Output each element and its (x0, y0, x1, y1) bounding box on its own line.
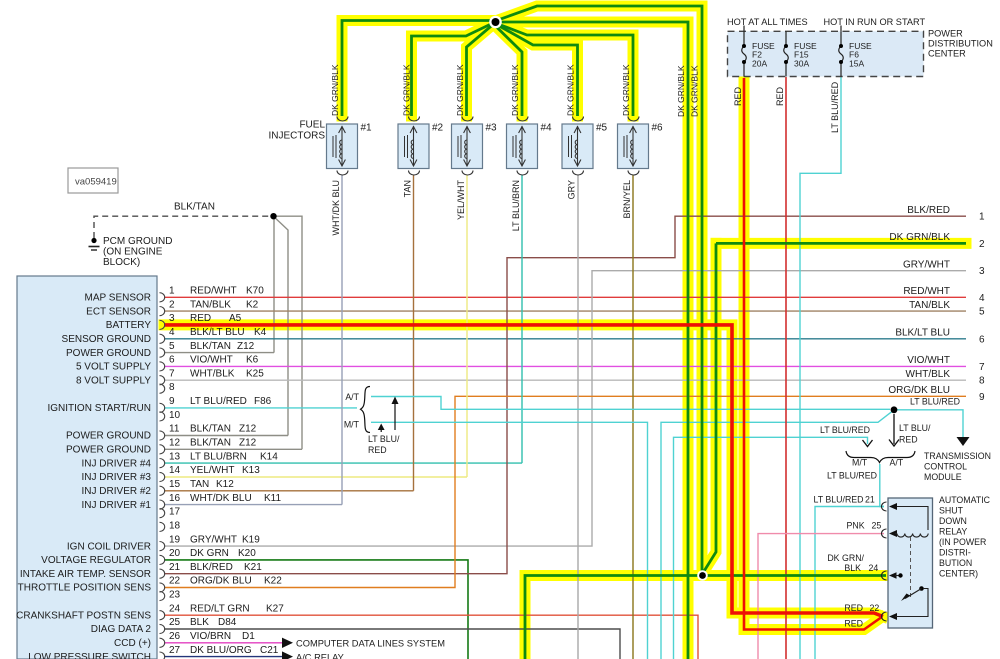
svg-text:#1: #1 (361, 123, 373, 134)
fuel injector #2 (398, 117, 444, 176)
svg-text:A/T: A/T (890, 458, 904, 468)
svg-text:K12: K12 (216, 479, 234, 490)
wire DK GRN/BLK injector feeds from splice (342, 21, 633, 117)
svg-text:4: 4 (979, 293, 985, 304)
svg-text:ECT SENSOR: ECT SENSOR (86, 306, 151, 317)
splice dot DK GRN/BLK lower (697, 570, 708, 581)
svg-text:3: 3 (169, 313, 175, 324)
svg-text:INJ DRIVER #1: INJ DRIVER #1 (82, 500, 152, 511)
svg-text:WHT/DK BLU: WHT/DK BLU (331, 180, 341, 236)
svg-text:23: 23 (169, 590, 181, 601)
tick hot-in-run (840, 26, 842, 32)
svg-text:K14: K14 (260, 451, 278, 462)
svg-text:BLK/TAN: BLK/TAN (190, 424, 231, 435)
svg-text:RELAY: RELAY (939, 527, 967, 537)
fuel injector #4 (507, 117, 553, 176)
svg-text:22: 22 (169, 576, 181, 587)
wire TAN injector 2 down (413, 175, 415, 491)
svg-text:GRY/WHT: GRY/WHT (190, 534, 237, 545)
diagram id tag va059419 (68, 168, 118, 193)
ground splice branch to pin 12 (276, 216, 302, 449)
svg-text:POWER GROUND: POWER GROUND (66, 445, 151, 456)
wire DK BLU/ORG pin 27 to A/C relay arrow (164, 656, 282, 658)
fuel injector #5 (562, 117, 608, 176)
vertical labels DK GRN/BLK right verticals (676, 65, 700, 117)
svg-text:YEL/WHT: YEL/WHT (456, 180, 466, 221)
svg-text:K20: K20 (238, 548, 256, 559)
vertical label BRN/YEL (622, 180, 632, 219)
svg-text:(IN POWER: (IN POWER (939, 537, 986, 547)
svg-text:K22: K22 (264, 576, 282, 587)
ground splice vertical to pin 5 (273, 216, 275, 352)
svg-text:WHT/BLK: WHT/BLK (906, 369, 951, 380)
svg-text:CONTROL: CONTROL (924, 462, 967, 472)
wire LT BLU/RED M/T return from below (661, 412, 892, 659)
svg-text:K27: K27 (266, 603, 284, 614)
svg-text:GRY: GRY (567, 180, 577, 199)
svg-text:17: 17 (169, 507, 181, 518)
svg-text:WHT/DK BLU: WHT/DK BLU (190, 493, 252, 504)
wire BLK/TAN pin 5 (164, 352, 274, 354)
svg-text:GRY/WHT: GRY/WHT (903, 260, 950, 271)
vertical label LT BLU/BRN (511, 180, 521, 231)
svg-text:WHT/BLK: WHT/BLK (190, 368, 235, 379)
svg-text:COMPUTER DATA LINES SYSTEM: COMPUTER DATA LINES SYSTEM (296, 639, 445, 649)
svg-text:14: 14 (169, 465, 181, 476)
wire VIO/BRN pin 26 to data-line arrow (164, 642, 282, 644)
arrow up to A/T wire (392, 397, 399, 431)
svg-text:POWER: POWER (928, 29, 963, 39)
svg-text:INJ DRIVER #2: INJ DRIVER #2 (82, 486, 152, 497)
svg-text:BLK/TAN: BLK/TAN (174, 202, 215, 213)
wire DK GRN/BLK to right edge (circuit 2) (716, 242, 966, 245)
wire LT BLU/BRN pin 13 to injector 4 column (164, 462, 522, 464)
label LT BLU/RED M/T feed (820, 425, 870, 435)
label LT BLU/RED 21 (814, 495, 875, 505)
svg-text:RED/WHT: RED/WHT (190, 286, 237, 297)
svg-text:9: 9 (979, 392, 985, 403)
svg-text:PCM GROUND: PCM GROUND (103, 236, 172, 247)
svg-text:TAN/BLK: TAN/BLK (190, 299, 231, 310)
svg-text:RED: RED (368, 445, 387, 455)
svg-text:Z12: Z12 (239, 438, 257, 449)
wire RED fuse F15 down to bottom (785, 77, 787, 659)
svg-text:IGNITION START/RUN: IGNITION START/RUN (47, 403, 151, 414)
wire LT BLU/RED A/T branch to TCM splice (371, 397, 890, 410)
svg-text:va059419: va059419 (75, 177, 117, 188)
svg-text:A/C RELAY: A/C RELAY (296, 653, 344, 659)
svg-text:CRANKSHAFT POSTN SENS: CRANKSHAFT POSTN SENS (16, 610, 151, 621)
svg-text:DOWN: DOWN (939, 516, 967, 526)
svg-text:21: 21 (865, 495, 875, 505)
splice dot LT BLU/RED at TCM (891, 406, 898, 413)
svg-text:CENTER: CENTER (928, 49, 966, 59)
svg-text:19: 19 (169, 534, 181, 545)
svg-text:8: 8 (169, 382, 175, 393)
label A/C RELAY (296, 653, 344, 659)
svg-text:DISTRI-: DISTRI- (939, 548, 971, 558)
svg-text:LT BLU/RED: LT BLU/RED (820, 425, 870, 435)
label POWER DISTRIBUTION CENTER (928, 29, 993, 59)
svg-text:2: 2 (979, 239, 985, 250)
wire BLK/TAN (dashed, PCM ground to splice) (94, 216, 270, 238)
svg-text:BLK: BLK (190, 617, 209, 628)
svg-text:K13: K13 (242, 465, 260, 476)
wire LT BLU/RED lower branch to M/T arrow (674, 437, 868, 659)
svg-text:4: 4 (169, 327, 175, 338)
wire BLK/LT BLU pin 4 to right edge (164, 338, 966, 340)
wire LT BLU/RED splice to TCM solid arrow (897, 410, 963, 437)
fuse F2 (742, 31, 775, 76)
wire BLK/TAN pin 12 (164, 448, 302, 450)
svg-text:K6: K6 (246, 355, 259, 366)
wire BRN/YEL injector 6 down to bottom (632, 175, 634, 659)
svg-text:24: 24 (169, 603, 181, 614)
arrowhead A/C relay (282, 651, 293, 659)
wire GRY injector 5 down to bottom (577, 175, 579, 659)
svg-text:LT BLU/BRN: LT BLU/BRN (511, 180, 521, 231)
svg-text:BLK/RED: BLK/RED (190, 562, 233, 573)
svg-text:DK GRN/BLK: DK GRN/BLK (330, 64, 340, 116)
right side circuit labels 1-9 (888, 205, 985, 403)
tick hot-at-all-times (743, 26, 745, 32)
svg-text:LT BLU/: LT BLU/ (899, 423, 931, 433)
svg-text:DK GRN/BLK: DK GRN/BLK (402, 64, 412, 116)
svg-text:IGN COIL DRIVER: IGN COIL DRIVER (67, 541, 151, 552)
wire TAN/BLK pin 2 to right edge (164, 310, 966, 312)
label FUEL INJECTORS (269, 120, 326, 142)
wire WHT/DK BLU pin 16 to injector 1 column (164, 504, 342, 506)
svg-text:BLK/LT BLU: BLK/LT BLU (190, 327, 245, 338)
splice dot injector feed (489, 16, 502, 29)
svg-text:20: 20 (169, 548, 181, 559)
svg-text:TRANSMISSION: TRANSMISSION (924, 451, 991, 461)
svg-text:15A: 15A (849, 58, 864, 68)
svg-text:1: 1 (979, 212, 985, 223)
label LT BLU/RED at A/T arrow (899, 423, 931, 445)
arrowhead computer data lines (282, 638, 293, 648)
PCM wire name and circuit labels (190, 286, 284, 656)
wire RED/LT GRN pin 24 down to bottom (164, 615, 698, 659)
wire BLK pin 25 down to bottom (164, 629, 620, 659)
vertical label LT BLU/RED fuse F6 (830, 81, 840, 133)
svg-text:DK BLU/ORG: DK BLU/ORG (190, 645, 252, 656)
label LT BLU/RED right side (910, 397, 960, 407)
vertical labels DK GRN/BLK over injectors (330, 64, 631, 116)
wire BLK/RED pin 21 jog up to right edge (164, 216, 966, 574)
svg-text:LT BLU/BRN: LT BLU/BRN (190, 451, 247, 462)
wire LT BLU/RED TCM bracket to ASD relay pin 21 (880, 464, 884, 507)
svg-text:3: 3 (979, 266, 985, 277)
svg-text:Z12: Z12 (237, 341, 255, 352)
wire YEL/WHT pin 14 to injector 3 column (164, 476, 467, 478)
labels A/T M/T at pin 9 (344, 392, 360, 430)
svg-text:11: 11 (169, 424, 180, 435)
svg-text:BUTION: BUTION (939, 558, 972, 568)
svg-text:TAN/BLK: TAN/BLK (909, 300, 950, 311)
svg-text:INTAKE AIR TEMP. SENSOR: INTAKE AIR TEMP. SENSOR (20, 569, 151, 580)
svg-text:DK GRN/BLK: DK GRN/BLK (455, 64, 465, 116)
svg-text:20A: 20A (752, 58, 767, 68)
svg-text:CCD (+): CCD (+) (114, 638, 151, 649)
svg-text:BRN/YEL: BRN/YEL (622, 180, 632, 219)
svg-text:RED: RED (733, 86, 743, 106)
svg-text:POWER GROUND: POWER GROUND (66, 431, 151, 442)
wire WHT/DK BLU injector 1 down (341, 175, 343, 505)
svg-text:#6: #6 (652, 123, 664, 134)
brace A/T-M/T split at pin 9 (361, 387, 371, 433)
vertical label RED fuse F15 (775, 86, 785, 106)
wire WHT/BLK pin 7 to right edge (164, 379, 966, 381)
wire PNK ASD relay pin 25 (758, 534, 884, 659)
vertical label YEL/WHT (456, 180, 466, 221)
label PNK 25 (847, 521, 882, 531)
label PCM GROUND (103, 236, 172, 268)
svg-text:#3: #3 (486, 123, 498, 134)
svg-text:27: 27 (169, 645, 181, 656)
label BLK/TAN ground wire (174, 202, 215, 213)
svg-text:C21: C21 (260, 645, 279, 656)
svg-text:DK GRN/BLK: DK GRN/BLK (676, 65, 686, 117)
svg-text:25: 25 (872, 521, 882, 531)
svg-text:BLK/TAN: BLK/TAN (190, 341, 231, 352)
wire YEL/WHT injector 3 down (466, 175, 468, 477)
svg-text:LT BLU/RED: LT BLU/RED (190, 396, 247, 407)
svg-text:15: 15 (169, 479, 181, 490)
PCM pin connector stubs (160, 293, 165, 659)
svg-text:TAN: TAN (190, 479, 209, 490)
wire BLK/TAN pin 11 (164, 435, 288, 437)
svg-text:K11: K11 (264, 493, 281, 504)
wire DK GRN pin 20 down to bottom (164, 560, 468, 659)
PCM terminal function labels (16, 293, 151, 659)
svg-text:18: 18 (169, 520, 181, 531)
svg-text:6: 6 (979, 334, 985, 345)
open arrow M/T into TCM bracket (863, 440, 873, 447)
svg-text:#4: #4 (541, 123, 553, 134)
TCM bracket under M/T and A/T (846, 451, 915, 463)
wire GRY/WHT pin 19 jog up to right edge (164, 271, 966, 546)
PCM connector box (17, 276, 157, 659)
svg-text:DK GRN/BLK: DK GRN/BLK (889, 232, 950, 243)
svg-text:RED: RED (899, 435, 918, 445)
svg-text:10: 10 (169, 410, 181, 421)
svg-text:A5: A5 (229, 313, 242, 324)
arrow LT BLU/RED from splice down to A/T (889, 414, 899, 446)
vertical label RED fuse F2 (733, 86, 743, 106)
svg-text:THROTTLE POSITION SENS: THROTTLE POSITION SENS (18, 583, 152, 594)
svg-text:25: 25 (169, 617, 181, 628)
svg-text:K19: K19 (242, 534, 260, 545)
svg-text:FUEL: FUEL (299, 120, 325, 131)
svg-text:2: 2 (169, 299, 175, 310)
svg-text:K21: K21 (244, 562, 262, 573)
svg-text:8: 8 (979, 376, 985, 387)
wire LT BLU/RED fuse F6 jog down to bottom (800, 77, 841, 659)
svg-text:BLOCK): BLOCK) (103, 257, 140, 268)
wire DK GRN/BLK splice to right vertical A (498, 6, 702, 571)
svg-text:BLK/TAN: BLK/TAN (190, 438, 231, 449)
svg-text:LT BLU/RED: LT BLU/RED (830, 81, 840, 133)
wire DK GRN/BLK splice to right vertical B (496, 22, 689, 659)
wire RED battery pin 3 to ASD relay pin 22 (164, 325, 883, 617)
wire RED fuse F2 to ASD relay pin 22 (744, 78, 881, 630)
solid arrowhead into TCM (957, 437, 970, 446)
svg-text:DK GRN/BLK: DK GRN/BLK (566, 64, 576, 116)
svg-text:BLK: BLK (844, 563, 861, 573)
svg-text:HOT AT ALL TIMES: HOT AT ALL TIMES (727, 17, 808, 27)
wire LT BLU/RED relay pin 21 down to bottom (815, 507, 884, 659)
vertical label TAN (403, 180, 413, 197)
svg-text:TAN: TAN (403, 180, 413, 197)
svg-text:12: 12 (169, 438, 181, 449)
svg-text:BLK/RED: BLK/RED (907, 205, 950, 216)
svg-text:7: 7 (979, 362, 985, 373)
svg-text:M/T: M/T (852, 458, 868, 468)
arrow up to M/T wire (378, 424, 385, 433)
svg-text:MAP SENSOR: MAP SENSOR (85, 293, 152, 304)
svg-text:RED: RED (844, 618, 863, 628)
svg-text:Z12: Z12 (239, 424, 257, 435)
label COMPUTER DATA LINES SYSTEM (296, 639, 445, 649)
wire LT BLU/BRN injector 4 down (521, 175, 523, 463)
svg-text:K70: K70 (246, 286, 264, 297)
fuel injector #6 (618, 117, 664, 176)
label TRANSMISSION CONTROL MODULE (924, 451, 991, 482)
svg-text:HOT IN RUN OR START: HOT IN RUN OR START (824, 17, 926, 27)
label RED 22 (844, 603, 879, 613)
wire highlight (traced-circuit yellow overlay) (164, 6, 966, 659)
fuse F6 (839, 31, 872, 76)
svg-text:9: 9 (169, 396, 175, 407)
svg-text:24: 24 (869, 563, 879, 573)
svg-text:YEL/WHT: YEL/WHT (190, 465, 234, 476)
labels M/T and A/T at TCM (852, 458, 904, 468)
svg-text:5: 5 (169, 341, 175, 352)
svg-text:8 VOLT SUPPLY: 8 VOLT SUPPLY (76, 375, 151, 386)
svg-text:16: 16 (169, 493, 181, 504)
svg-text:VIO/WHT: VIO/WHT (907, 355, 950, 366)
svg-text:RED: RED (190, 313, 211, 324)
svg-text:DK GRN/BLK: DK GRN/BLK (690, 65, 700, 117)
svg-text:A/T: A/T (345, 392, 359, 402)
svg-text:SENSOR GROUND: SENSOR GROUND (62, 334, 151, 345)
svg-text:ORG/DK BLU: ORG/DK BLU (190, 576, 252, 587)
svg-text:LT BLU/RED: LT BLU/RED (814, 495, 864, 505)
svg-text:POWER GROUND: POWER GROUND (66, 348, 151, 359)
ground splice branch to pin 11 (275, 218, 288, 436)
label HOT IN RUN OR START (824, 17, 926, 27)
label HOT AT ALL TIMES (727, 17, 808, 27)
svg-text:ORG/DK BLU: ORG/DK BLU (888, 385, 950, 396)
vertical label GRY (567, 180, 577, 199)
svg-text:RED/WHT: RED/WHT (903, 286, 950, 297)
svg-text:DIAG DATA 2: DIAG DATA 2 (91, 624, 152, 635)
svg-text:CENTER): CENTER) (939, 569, 978, 579)
wire VIO/WHT pin 6 to right edge (164, 365, 966, 367)
svg-text:DK GRN/BLK: DK GRN/BLK (510, 64, 520, 116)
svg-text:D84: D84 (218, 617, 237, 628)
svg-text:22: 22 (870, 603, 880, 613)
svg-text:1: 1 (169, 286, 175, 297)
wire LT BLU/RED M/T branch (371, 422, 648, 659)
svg-text:RED: RED (775, 86, 785, 106)
svg-text:VIO/BRN: VIO/BRN (190, 631, 231, 642)
wire TAN pin 15 to injector 2 column (164, 490, 414, 492)
svg-text:PNK: PNK (847, 521, 865, 531)
PCM pin numbers 1-27 (169, 286, 181, 656)
svg-text:DISTRIBUTION: DISTRIBUTION (928, 39, 993, 49)
svg-text:VOLTAGE REGULATOR: VOLTAGE REGULATOR (41, 555, 151, 566)
wire LT BLU/RED pin 9 to brace (164, 407, 357, 409)
svg-text:K4: K4 (254, 327, 267, 338)
svg-text:INJECTORS: INJECTORS (269, 131, 326, 142)
label DK GRN/BLK 24 (827, 553, 878, 573)
svg-text:SHUT: SHUT (939, 506, 964, 516)
svg-text:5 VOLT SUPPLY: 5 VOLT SUPPLY (76, 362, 151, 373)
svg-text:DK GRN: DK GRN (190, 548, 229, 559)
svg-text:AUTOMATIC: AUTOMATIC (939, 495, 991, 505)
fuel injector #3 (452, 117, 498, 176)
svg-text:LOW PRESSURE SWITCH: LOW PRESSURE SWITCH (28, 652, 151, 659)
svg-text:5: 5 (979, 307, 985, 318)
svg-text:LT BLU/RED: LT BLU/RED (910, 397, 960, 407)
label LT BLU/RED at pin 9 arrows (368, 434, 400, 455)
svg-text:DK GRN/BLK: DK GRN/BLK (621, 64, 631, 116)
label RED fuse branch (844, 618, 863, 628)
relay U1 automatic shut down relay (882, 498, 933, 628)
svg-text:K25: K25 (246, 368, 264, 379)
svg-text:LT BLU/: LT BLU/ (368, 434, 400, 444)
svg-text:7: 7 (169, 368, 175, 379)
label AUTOMATIC SHUT DOWN RELAY (939, 495, 991, 579)
splice dot ground BLK/TAN (270, 213, 276, 219)
svg-text:6: 6 (169, 355, 175, 366)
label LT BLU/RED below bracket (827, 471, 877, 481)
svg-text:30A: 30A (794, 58, 809, 68)
wire ORG/DK BLU pin 22 jog up to right edge (164, 396, 966, 587)
svg-text:M/T: M/T (344, 420, 360, 430)
svg-text:#2: #2 (432, 123, 444, 134)
svg-text:F86: F86 (254, 396, 272, 407)
fuse F15 (784, 31, 817, 76)
vertical label WHT/DK BLU (331, 180, 341, 236)
svg-text:LT BLU/RED: LT BLU/RED (827, 471, 877, 481)
svg-text:#5: #5 (596, 123, 608, 134)
svg-text:RED: RED (844, 603, 863, 613)
svg-text:D1: D1 (242, 631, 255, 642)
svg-text:DK GRN/: DK GRN/ (827, 553, 864, 563)
wire DK GRN/BLK lower run to ASD relay pin 24 (525, 576, 886, 659)
svg-text:INJ DRIVER #4: INJ DRIVER #4 (82, 458, 152, 469)
wire DK GRN/BLK vertical from circuit 2 to lower splice (704, 243, 717, 572)
fuel injector #1 (327, 117, 373, 176)
svg-text:RED/LT GRN: RED/LT GRN (190, 603, 250, 614)
wire RED/WHT pin 1 to right edge (164, 296, 966, 298)
svg-text:BLK/LT BLU: BLK/LT BLU (895, 328, 950, 339)
ground symbol (PCM ground on engine block) (89, 238, 100, 250)
svg-text:INJ DRIVER #3: INJ DRIVER #3 (82, 472, 152, 483)
svg-text:K2: K2 (246, 299, 259, 310)
svg-text:13: 13 (169, 451, 181, 462)
svg-text:21: 21 (169, 562, 181, 573)
svg-text:(ON ENGINE: (ON ENGINE (103, 247, 163, 258)
svg-text:26: 26 (169, 631, 181, 642)
svg-text:MODULE: MODULE (924, 472, 962, 482)
svg-text:BATTERY: BATTERY (106, 320, 152, 331)
svg-text:VIO/WHT: VIO/WHT (190, 355, 233, 366)
power distribution center box (728, 31, 924, 76)
